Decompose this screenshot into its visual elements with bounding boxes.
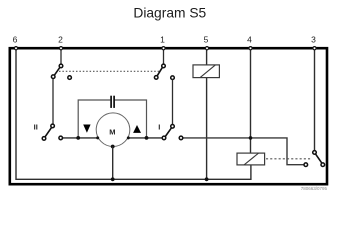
motor bottom terminal dot [111,145,115,149]
svg-text:II: II [34,122,38,131]
terminal circle 4 [249,47,252,50]
right switch pivot circle [313,151,317,155]
wire from right contact down to switch I [172,80,174,125]
switch lever under terminal 1 (resting on dead contact) [157,67,162,76]
junction dot capacitor right [145,136,149,140]
svg-text:M: M [109,127,115,136]
svg-text:780663/0795: 780663/0795 [301,186,328,191]
wire terminal 3 drop [314,48,316,150]
switch II lever end circle [42,137,46,141]
dead-end contact circle terminal 1 switch [154,76,158,80]
capacitor C1 plates [110,96,112,108]
wire from left contact down to switch II [52,78,54,124]
svg-text:5: 5 [204,35,209,45]
svg-text:1: 1 [160,35,165,45]
right switch contact circle [304,163,308,167]
svg-text:2: 2 [58,35,63,45]
motor terminal dot left [96,136,99,139]
terminal circle 6 [14,47,17,50]
right switch lever (open, hanging right) [316,154,322,163]
terminal circle 3 [313,47,316,50]
svg-text:3: 3 [311,35,316,45]
junction dot terminal 4 line [249,136,253,140]
wire relay K1 bottom to bus [206,78,208,180]
motor M [96,113,130,147]
wire terminal 5 drop to relay coil K1 [206,48,208,65]
wire terminal 6 to bottom bus [16,48,251,179]
pivot circle terminal 2 switch [59,64,63,68]
spare contact circle terminal 2 switch [68,76,72,80]
junction dot capacitor left [76,136,80,140]
switch I right contact circle [179,136,183,140]
motor supply wire [61,137,164,139]
right switch lever end circle [321,163,325,167]
left contact circle terminal 2 switch [51,75,55,79]
switch II pivot circle [51,124,55,128]
switch I lever (closed) [165,128,171,137]
relay coil K1 [193,65,219,78]
wire terminal 2 drop [60,48,62,64]
junction dot motor on bus [111,177,115,181]
wire terminal 4 drop to junction and relay coil K2 [250,48,252,153]
direction arrow up [133,125,141,133]
pivot circle terminal 1 switch [162,64,166,68]
wire switch I right contact to lower right switch contact [183,138,304,165]
svg-text:4: 4 [247,35,252,45]
switch I pivot circle [171,125,175,129]
direction arrow down [83,125,90,133]
terminal circle 5 [205,47,208,50]
junction dot relay K1 on bus [205,177,209,181]
relay coil K2 [237,153,265,165]
switch II lever (open) [45,127,52,136]
motor terminal dot right [127,136,130,139]
terminal circle 1 [162,47,165,50]
capacitor branch wires [78,100,110,138]
switch lever under terminal 2 (closed onto left contact) [54,67,60,75]
svg-text:6: 6 [13,35,18,45]
right contact circle terminal 1 switch [171,76,175,80]
border frame [10,48,327,184]
mechanical dashed link between top switches [59,70,160,72]
terminal circle 2 [59,47,62,50]
switch II contact circle [59,136,63,140]
wire motor bottom to bus [112,147,114,180]
svg-text:I: I [158,122,160,131]
switch I left contact circle [162,136,166,140]
wire terminal 1 drop [163,48,165,64]
svg-text:Diagram S5: Diagram S5 [133,5,206,20]
mechanical dashed link relay K2 to right switch [266,158,312,160]
